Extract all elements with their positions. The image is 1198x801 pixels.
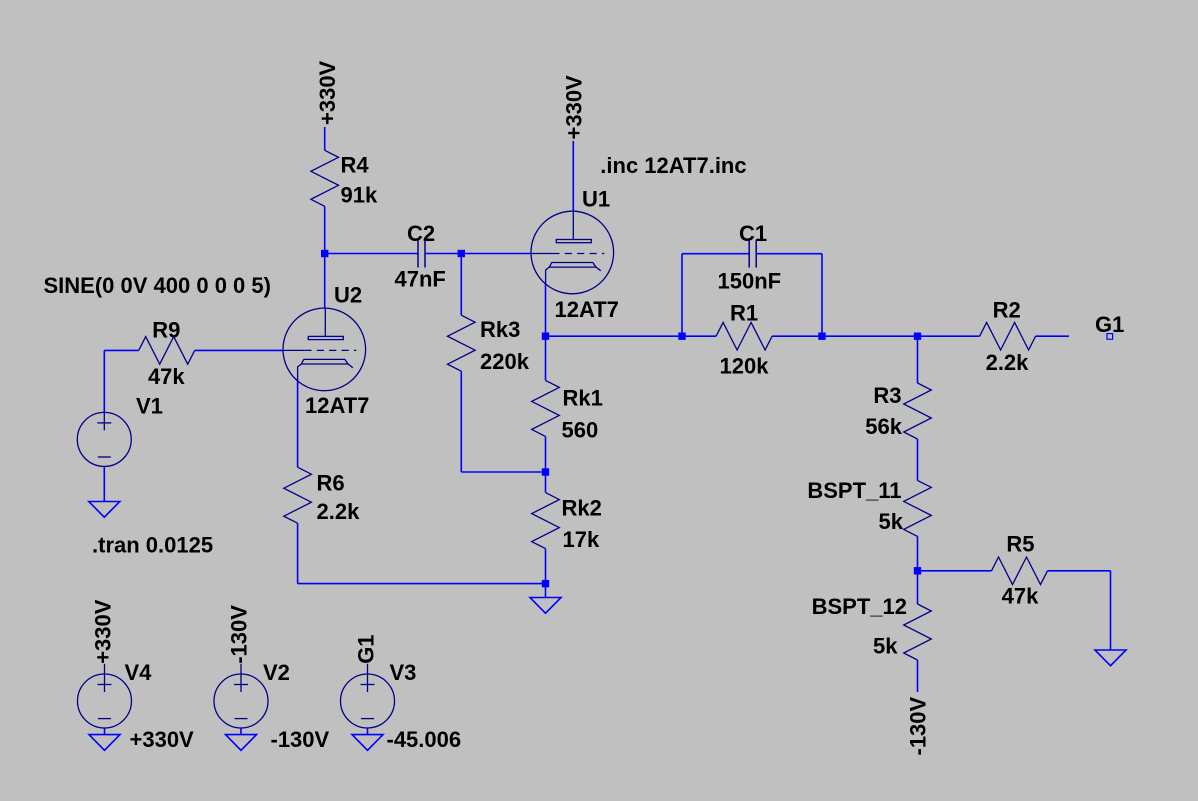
wire Rk1 to node bbox=[545, 436, 547, 472]
voltage source V1 bbox=[77, 412, 131, 466]
svg-text:150nF: 150nF bbox=[718, 269, 782, 294]
svg-text:R5: R5 bbox=[1006, 532, 1034, 557]
svg-text:-130V: -130V bbox=[271, 727, 330, 752]
svg-text:R6: R6 bbox=[317, 471, 345, 496]
wire +330V to R4 bbox=[324, 127, 326, 150]
svg-text:560: 560 bbox=[562, 418, 599, 443]
svg-text:SINE(0 0V 400 0 0 0 5): SINE(0 0V 400 0 0 0 5) bbox=[44, 273, 271, 298]
wire R5 right bbox=[1048, 570, 1111, 572]
svg-text:+330V: +330V bbox=[91, 599, 116, 664]
wire C1 right plate bbox=[756, 253, 822, 255]
svg-text:.tran 0.0125: .tran 0.0125 bbox=[92, 533, 213, 558]
wire R1 to node bbox=[772, 335, 822, 337]
svg-text:U1: U1 bbox=[582, 187, 610, 212]
wire node to Rk3 bbox=[460, 254, 462, 316]
wire BSPT_12 to -130V bbox=[917, 660, 919, 692]
resistor R6 bbox=[284, 467, 312, 523]
svg-text:2.2k: 2.2k bbox=[986, 350, 1030, 375]
wire R3 to BSPT_11 bbox=[917, 439, 919, 480]
svg-text:5k: 5k bbox=[873, 634, 898, 659]
wire V2 to ground bbox=[240, 728, 242, 735]
resistor R5 bbox=[992, 557, 1048, 585]
svg-text:R3: R3 bbox=[873, 383, 901, 408]
wire V2 top stub bbox=[240, 664, 242, 674]
capacitor C1 bbox=[749, 240, 756, 268]
svg-text:220k: 220k bbox=[480, 349, 530, 374]
wire down to V1 bbox=[103, 350, 105, 412]
wire Rk3 to node bbox=[461, 471, 545, 473]
svg-text:12AT7: 12AT7 bbox=[305, 393, 369, 418]
node R2/R3 bbox=[914, 333, 921, 340]
svg-text:C1: C1 bbox=[739, 221, 767, 246]
wire V3 to ground bbox=[367, 728, 369, 735]
svg-text:V1: V1 bbox=[136, 393, 163, 418]
wire R4 to node bbox=[324, 206, 326, 253]
wire V3 top stub bbox=[367, 664, 369, 674]
node U1-cathode/R1 bbox=[542, 333, 549, 340]
node R1/C1 right bbox=[818, 333, 825, 340]
wire V1 to R9 bbox=[104, 349, 138, 351]
wire C2 to U1 grid bbox=[426, 253, 531, 255]
ground V1 bbox=[89, 502, 120, 518]
svg-text:12AT7: 12AT7 bbox=[555, 297, 619, 322]
node BSPT/R5 bbox=[914, 567, 921, 574]
svg-text:V2: V2 bbox=[263, 660, 290, 685]
wire node to R3 bbox=[917, 336, 919, 383]
svg-text:-130V: -130V bbox=[227, 605, 252, 664]
voltage source V3 bbox=[341, 674, 395, 728]
wire R9 to U2 grid bbox=[195, 349, 284, 351]
wire U2 cathode to R6 bbox=[297, 381, 299, 467]
voltage source V2 bbox=[214, 674, 268, 728]
wire node to BSPT_12 bbox=[917, 571, 919, 604]
svg-text:-130V: -130V bbox=[906, 696, 931, 755]
svg-text:R2: R2 bbox=[993, 298, 1021, 323]
svg-text:5k: 5k bbox=[879, 509, 904, 534]
node R4/C2/U2 bbox=[321, 250, 328, 257]
svg-text:V4: V4 bbox=[125, 660, 153, 685]
svg-text:+330V: +330V bbox=[315, 60, 340, 125]
wire up to C1 bbox=[681, 254, 683, 337]
node ground net bbox=[542, 580, 549, 587]
wire node to U2 plate bbox=[324, 254, 326, 309]
wire node to ground bbox=[545, 584, 547, 598]
resistor Rk1 bbox=[532, 380, 560, 436]
resistor BSPT_12 bbox=[904, 604, 932, 660]
svg-text:56k: 56k bbox=[865, 414, 902, 439]
resistor R1 bbox=[716, 322, 772, 350]
triode U1 bbox=[531, 211, 614, 294]
wire Rk3 down bbox=[460, 371, 462, 472]
resistor R9 bbox=[139, 337, 195, 365]
ground V3 bbox=[352, 735, 383, 751]
resistor BSPT_11 bbox=[904, 480, 932, 536]
wire node to R2 bbox=[822, 335, 980, 337]
ground V4 bbox=[89, 735, 120, 751]
node C2/Rk3/U1-grid bbox=[458, 250, 465, 257]
svg-text:C2: C2 bbox=[407, 221, 435, 246]
wire R2 to port G1 bbox=[1036, 335, 1069, 337]
wire node to Rk1 bbox=[545, 336, 547, 380]
svg-text:BSPT_11: BSPT_11 bbox=[807, 478, 901, 503]
svg-text:91k: 91k bbox=[341, 182, 378, 207]
svg-text:R1: R1 bbox=[730, 301, 758, 326]
svg-text:17k: 17k bbox=[563, 527, 600, 552]
ground V2 bbox=[226, 735, 257, 751]
wire V4 to ground bbox=[104, 728, 106, 735]
wire down to ground bbox=[1110, 571, 1112, 650]
svg-text:Rk1: Rk1 bbox=[563, 386, 603, 411]
wire U1 cathode to node bbox=[545, 284, 547, 336]
wire to C1 left plate bbox=[682, 253, 749, 255]
wire node to C2 bbox=[325, 253, 418, 255]
svg-text:.inc 12AT7.inc: .inc 12AT7.inc bbox=[600, 153, 746, 178]
svg-text:BSPT_12: BSPT_12 bbox=[812, 594, 907, 619]
wire node to Rk2 bbox=[545, 472, 547, 493]
wire R6 to ground node bbox=[298, 583, 546, 585]
wire BSPT_11 to node bbox=[917, 536, 919, 570]
svg-text:-45.006: -45.006 bbox=[387, 727, 462, 752]
svg-text:120k: 120k bbox=[720, 353, 770, 378]
svg-text:Rk3: Rk3 bbox=[480, 317, 520, 342]
node Rk3/Rk1/Rk2 bbox=[542, 468, 549, 475]
resistor R3 bbox=[904, 383, 932, 439]
triode U2 bbox=[283, 308, 366, 391]
svg-text:2.2k: 2.2k bbox=[317, 499, 361, 524]
svg-text:47nF: 47nF bbox=[395, 267, 446, 292]
svg-text:U2: U2 bbox=[334, 283, 362, 308]
wire C1 down to node bbox=[821, 254, 823, 337]
resistor R2 bbox=[980, 322, 1036, 350]
svg-text:R9: R9 bbox=[152, 318, 180, 343]
ground R5 bbox=[1095, 650, 1126, 666]
ground cathode net bbox=[530, 598, 561, 614]
port G1 bbox=[1107, 334, 1113, 340]
wire node to R5 bbox=[918, 570, 992, 572]
svg-text:+330V: +330V bbox=[562, 75, 587, 140]
svg-text:47k: 47k bbox=[148, 364, 185, 389]
node R1/C1 left bbox=[678, 333, 685, 340]
svg-text:47k: 47k bbox=[1002, 584, 1039, 609]
svg-text:+330V: +330V bbox=[130, 727, 195, 752]
svg-text:V3: V3 bbox=[390, 660, 417, 685]
wire node to R1 bbox=[546, 335, 717, 337]
voltage source V4 bbox=[78, 674, 132, 728]
capacitor C2 bbox=[418, 240, 425, 268]
wire Rk2 to node bbox=[545, 549, 547, 584]
wire V4 top stub bbox=[104, 664, 106, 674]
svg-text:G1: G1 bbox=[354, 634, 379, 663]
svg-text:Rk2: Rk2 bbox=[562, 496, 602, 521]
wire V1 to ground bbox=[103, 466, 105, 501]
svg-text:R4: R4 bbox=[341, 153, 370, 178]
resistor Rk2 bbox=[532, 493, 560, 549]
resistor Rk3 bbox=[448, 315, 476, 371]
wire +330V to U1 plate bbox=[572, 141, 574, 211]
resistor R4 bbox=[311, 150, 339, 206]
wire R6 down bbox=[297, 523, 299, 583]
svg-text:G1: G1 bbox=[1095, 312, 1124, 337]
